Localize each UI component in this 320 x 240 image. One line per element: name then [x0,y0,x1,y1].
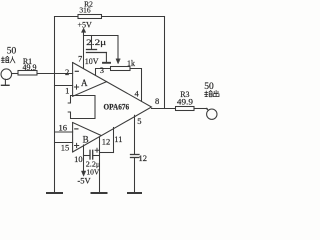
wire top feedback horizontal [55,16,165,18]
wire output pin8 [152,108,176,110]
plus mark A [74,85,78,89]
op-amp U1 OPA676 outer triangle [73,63,152,153]
minus mark B [75,128,78,130]
svg-text:316: 316 [79,6,91,15]
svg-text:2: 2 [65,67,69,77]
op-amp stage B triangle [73,123,101,153]
wire 1k right to pin4 [130,69,142,102]
svg-text:12: 12 [102,137,111,147]
capacitor C2 2.2u polarized [84,150,100,159]
svg-text:15: 15 [61,143,70,153]
wire pin1 [55,85,73,87]
wire R1 to pin2 [37,73,73,75]
input connector J1 [1,69,18,85]
svg-text:2.2μ: 2.2μ [86,38,106,47]
-5V arrow [83,156,85,172]
resistor R1 [18,71,37,76]
svg-text:8: 8 [155,96,159,106]
plus mark B [75,143,79,147]
ground bar right [128,192,141,194]
wire pin12-pin11 bottom [100,152,114,154]
svg-text:10: 10 [74,154,83,164]
label shuchu (CJK output) [205,90,220,96]
svg-text:10V: 10V [85,57,99,66]
ground bar middle [92,192,107,194]
svg-text:OPA676: OPA676 [104,103,130,112]
svg-text:12: 12 [139,153,148,163]
capacitor C4 [131,155,140,194]
svg-text:4: 4 [134,88,139,98]
wire pin5 [134,115,136,154]
svg-text:49.9: 49.9 [177,97,193,106]
resistor R2 [78,15,102,19]
wire +5V rail [84,35,119,37]
op-amp stage A triangle [73,63,107,97]
svg-text:1: 1 [65,86,69,96]
wire 1k left to pin3 [96,69,111,76]
capacitor C1 2.2u [87,36,107,63]
svg-text:50: 50 [204,82,214,92]
minus mark A [75,70,78,72]
wire feedback right vertical [164,17,166,109]
svg-text:5: 5 [137,116,141,126]
svg-text:1k: 1k [127,59,135,68]
wire feedback left vertical [54,17,56,194]
wire pin11 [113,128,115,153]
svg-text:11: 11 [114,134,122,144]
svg-text:3: 3 [100,65,104,75]
resistor R4 1k [111,67,131,71]
ground bar left [47,192,62,194]
wire pin12 node to ground [99,153,101,194]
wire R3 to connector [194,108,207,110]
svg-text:7: 7 [78,53,82,63]
svg-text:16: 16 [59,122,68,132]
resistor R3 [176,107,195,111]
label shuru (CJK input) [1,56,15,63]
svg-text:-5V: -5V [77,176,91,186]
svg-text:A: A [81,78,88,88]
svg-text:50: 50 [7,47,17,57]
ground top [103,62,110,64]
wire pin7 [83,31,85,69]
wire pin12 [99,138,101,153]
wire pin15 [55,142,73,144]
wire pin16 [55,131,73,133]
plus mark C2 [95,148,99,152]
svg-text:+5V: +5V [78,20,93,29]
output connector J2 [206,108,217,120]
+5V arrow to select node [117,36,119,60]
svg-text:B: B [83,135,89,145]
switch box [68,96,95,119]
wire pin10 [83,145,85,156]
svg-text:49.9: 49.9 [23,63,37,72]
+5V arrow [81,28,85,32]
